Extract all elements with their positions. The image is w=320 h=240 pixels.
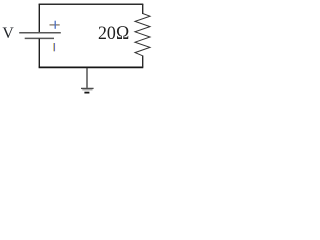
label V (source)	[2, 26, 13, 42]
wire ground stem	[86, 68, 88, 88]
wire right vertical lower (resistor bottom lead)	[142, 56, 144, 68]
battery plus sign	[50, 21, 60, 29]
ground bar 1 (widest)	[81, 87, 94, 89]
wire left vertical upper (battery top lead)	[38, 4, 40, 32]
wire right vertical upper (resistor top lead)	[142, 4, 144, 14]
battery V top plate	[19, 32, 61, 34]
label 20 ohm (resistor value)	[98, 24, 130, 43]
wire top horizontal	[39, 3, 144, 5]
ground bar 2 (middle)	[82, 89, 92, 91]
resistor R 20ohm zigzag	[135, 14, 150, 56]
battery V bottom plate	[25, 37, 54, 39]
wire bottom horizontal	[39, 66, 144, 68]
battery minus mark (vertical tick)	[53, 43, 56, 51]
wire left vertical lower (battery bottom lead)	[38, 39, 40, 68]
ground bar 3 (shortest)	[84, 92, 89, 94]
